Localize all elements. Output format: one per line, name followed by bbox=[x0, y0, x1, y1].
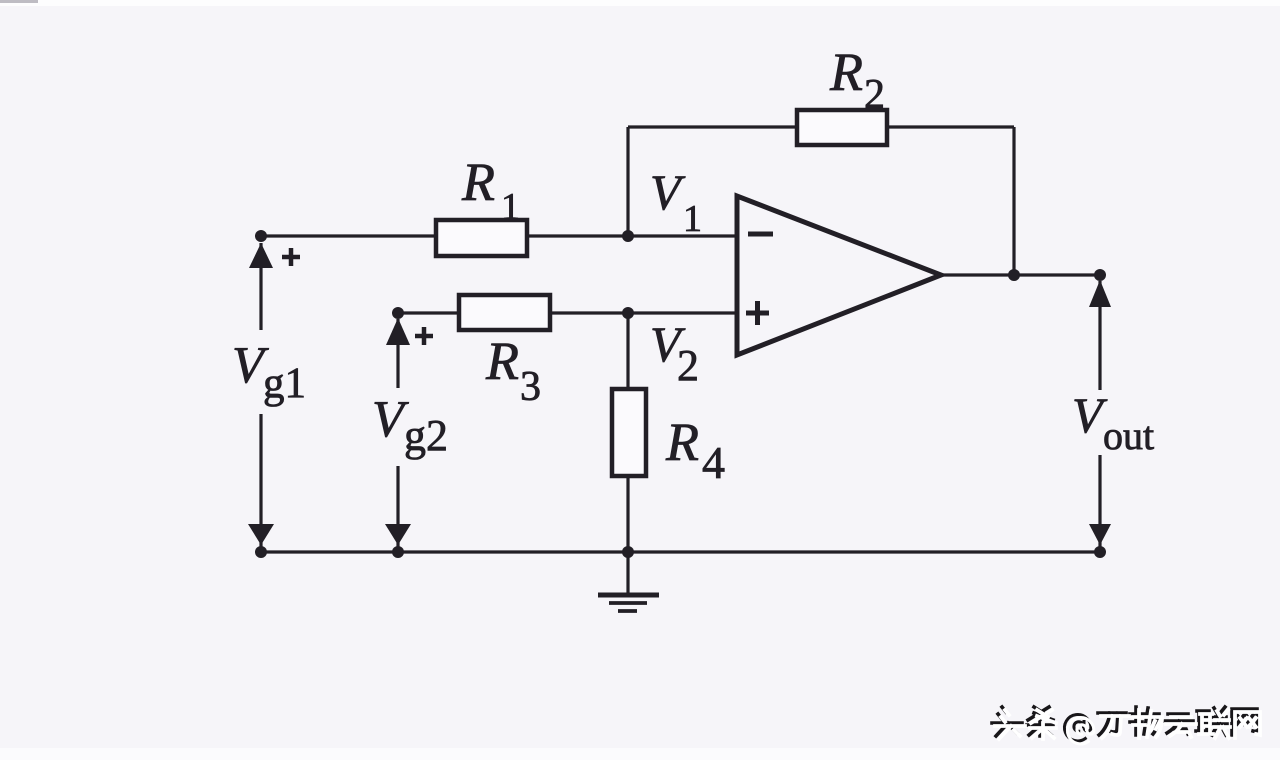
node V2 bbox=[622, 307, 634, 319]
node output junction bbox=[1008, 269, 1020, 281]
wire input V1 row bbox=[261, 234, 737, 237]
op-amp U1 bbox=[737, 196, 941, 355]
op-amp minus pin bbox=[748, 232, 773, 237]
node Vout top bbox=[1094, 269, 1106, 281]
node V1 bbox=[622, 230, 634, 242]
arrow Vg1 down bbox=[248, 524, 274, 545]
wire op-amp output bbox=[941, 273, 1100, 276]
wire Vout rail upper bbox=[1098, 281, 1101, 390]
label Vg2 bbox=[372, 391, 448, 460]
watermark black shadow layer bbox=[992, 707, 1257, 741]
resistor R4 bbox=[612, 389, 646, 476]
wire feedback left vertical bbox=[626, 127, 629, 236]
label V2 bbox=[650, 316, 699, 390]
watermark white top layer bbox=[995, 710, 1260, 744]
arrow Vg2 up bbox=[386, 318, 410, 345]
resistor R2 bbox=[797, 110, 887, 145]
wire V2 to R4 bbox=[626, 313, 629, 389]
label R2 bbox=[829, 42, 885, 118]
wire Vg2 rail upper bbox=[396, 319, 399, 388]
node bottom left bbox=[255, 546, 267, 558]
wire Vg2 rail lower bbox=[396, 466, 399, 552]
wire feedback top bbox=[628, 125, 1014, 128]
label Vg1 bbox=[232, 337, 306, 407]
arrow Vg2 down bbox=[385, 524, 411, 545]
label V1 bbox=[650, 164, 702, 240]
wire ground stub bbox=[626, 552, 629, 593]
label R1 bbox=[461, 152, 520, 228]
label Vout bbox=[1072, 387, 1154, 458]
plus sign Vg2 bbox=[415, 327, 433, 345]
ground bbox=[598, 595, 659, 611]
arrow Vout up bbox=[1089, 280, 1111, 307]
label R4 bbox=[665, 412, 725, 488]
arrow Vout down bbox=[1089, 524, 1111, 545]
node Vg1 top bbox=[255, 230, 267, 242]
plus sign Vg1 bbox=[282, 248, 300, 266]
label R3 bbox=[485, 331, 541, 410]
node Vg2 top bbox=[392, 307, 404, 319]
wire Vg1 rail lower bbox=[259, 414, 262, 552]
wire bottom rail bbox=[261, 550, 1100, 553]
op-amp plus pin bbox=[746, 301, 769, 325]
node bottom Vg2 bbox=[392, 546, 404, 558]
wire plus-input row bbox=[398, 311, 737, 314]
wire R4 to bottom rail bbox=[626, 476, 629, 552]
wire Vout rail lower bbox=[1098, 455, 1101, 552]
resistor R3 bbox=[459, 295, 550, 330]
arrow Vg1 up bbox=[249, 243, 273, 268]
node Vout bottom bbox=[1094, 546, 1106, 558]
wire feedback right vertical bbox=[1012, 127, 1015, 275]
node bottom ground junction bbox=[622, 546, 634, 558]
wire Vg1 rail upper bbox=[259, 243, 262, 330]
resistor R1 bbox=[436, 220, 527, 256]
